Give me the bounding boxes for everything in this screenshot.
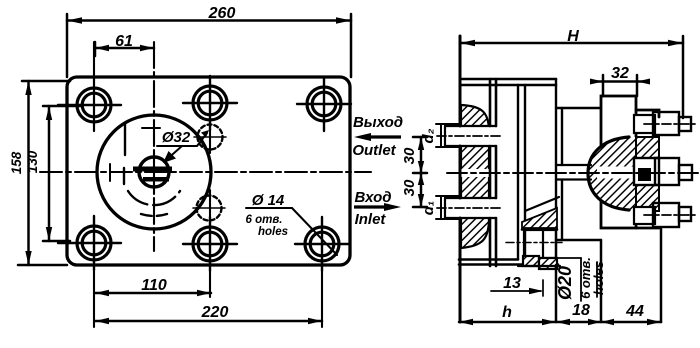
svg-text:13: 13	[503, 275, 521, 292]
svg-text:18: 18	[572, 302, 590, 319]
svg-text:H: H	[567, 28, 579, 45]
svg-text:44: 44	[625, 303, 644, 320]
svg-text:158: 158	[9, 151, 24, 174]
svg-text:holes: holes	[591, 261, 606, 295]
svg-text:holes: holes	[258, 226, 288, 238]
svg-text:Ø20: Ø20	[555, 266, 575, 300]
svg-text:6 отв.: 6 отв.	[246, 214, 283, 226]
svg-text:d₁: d₁	[420, 201, 437, 215]
svg-text:110: 110	[141, 277, 167, 294]
svg-text:h: h	[502, 304, 512, 321]
svg-text:Выход: Выход	[353, 114, 403, 131]
svg-text:Outlet: Outlet	[352, 142, 396, 159]
svg-text:30: 30	[401, 179, 418, 196]
svg-text:Inlet: Inlet	[355, 211, 387, 228]
svg-text:61: 61	[115, 33, 133, 50]
svg-text:260: 260	[208, 5, 236, 22]
svg-text:Вход: Вход	[354, 189, 391, 206]
svg-text:Ø 14: Ø 14	[252, 192, 285, 209]
svg-text:d₂: d₂	[420, 128, 437, 143]
svg-text:220: 220	[201, 304, 229, 321]
svg-text:Ø32: Ø32	[162, 129, 191, 146]
svg-text:130: 130	[25, 150, 40, 173]
svg-text:32: 32	[611, 65, 629, 82]
svg-text:30: 30	[401, 147, 418, 164]
